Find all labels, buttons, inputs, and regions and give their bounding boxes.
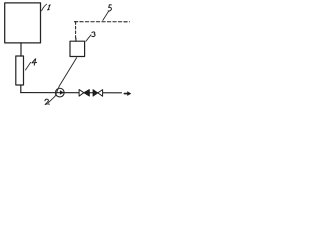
- valve V1 left triangle: [79, 90, 84, 97]
- stub box 3 top: [75, 38, 77, 41]
- valve V2 right triangle: [98, 90, 103, 97]
- label 4: [32, 59, 37, 65]
- label 3: [92, 32, 95, 37]
- leader line for label 3: [86, 35, 91, 41]
- dashed signal wire vertical: [75, 22, 77, 38]
- pump rotor triangle: [60, 90, 64, 94]
- wire box 4 to pipe: [20, 85, 22, 93]
- leader line for label 4: [26, 62, 31, 70]
- dashed signal line 5 horizontal: [74, 21, 129, 23]
- shaft / leader line from box 3 to pump 2: [48, 58, 76, 103]
- outflow dash: [124, 93, 127, 95]
- leader line for label 1: [42, 4, 47, 11]
- label 2: [45, 99, 49, 104]
- motor box 3: [70, 41, 85, 56]
- wire tank to box 4: [20, 43, 22, 56]
- pipe wire bottom: [21, 92, 122, 94]
- filter box 4: [16, 56, 24, 85]
- valve V1 right triangle: [84, 90, 90, 97]
- valve V2 left triangle: [93, 90, 98, 97]
- pump P circle: [55, 88, 64, 97]
- tank box 1: [5, 3, 41, 43]
- outflow arrowhead: [127, 91, 131, 96]
- label 5: [108, 5, 111, 11]
- leader line for label 5: [103, 11, 109, 20]
- label 1: [48, 5, 51, 10]
